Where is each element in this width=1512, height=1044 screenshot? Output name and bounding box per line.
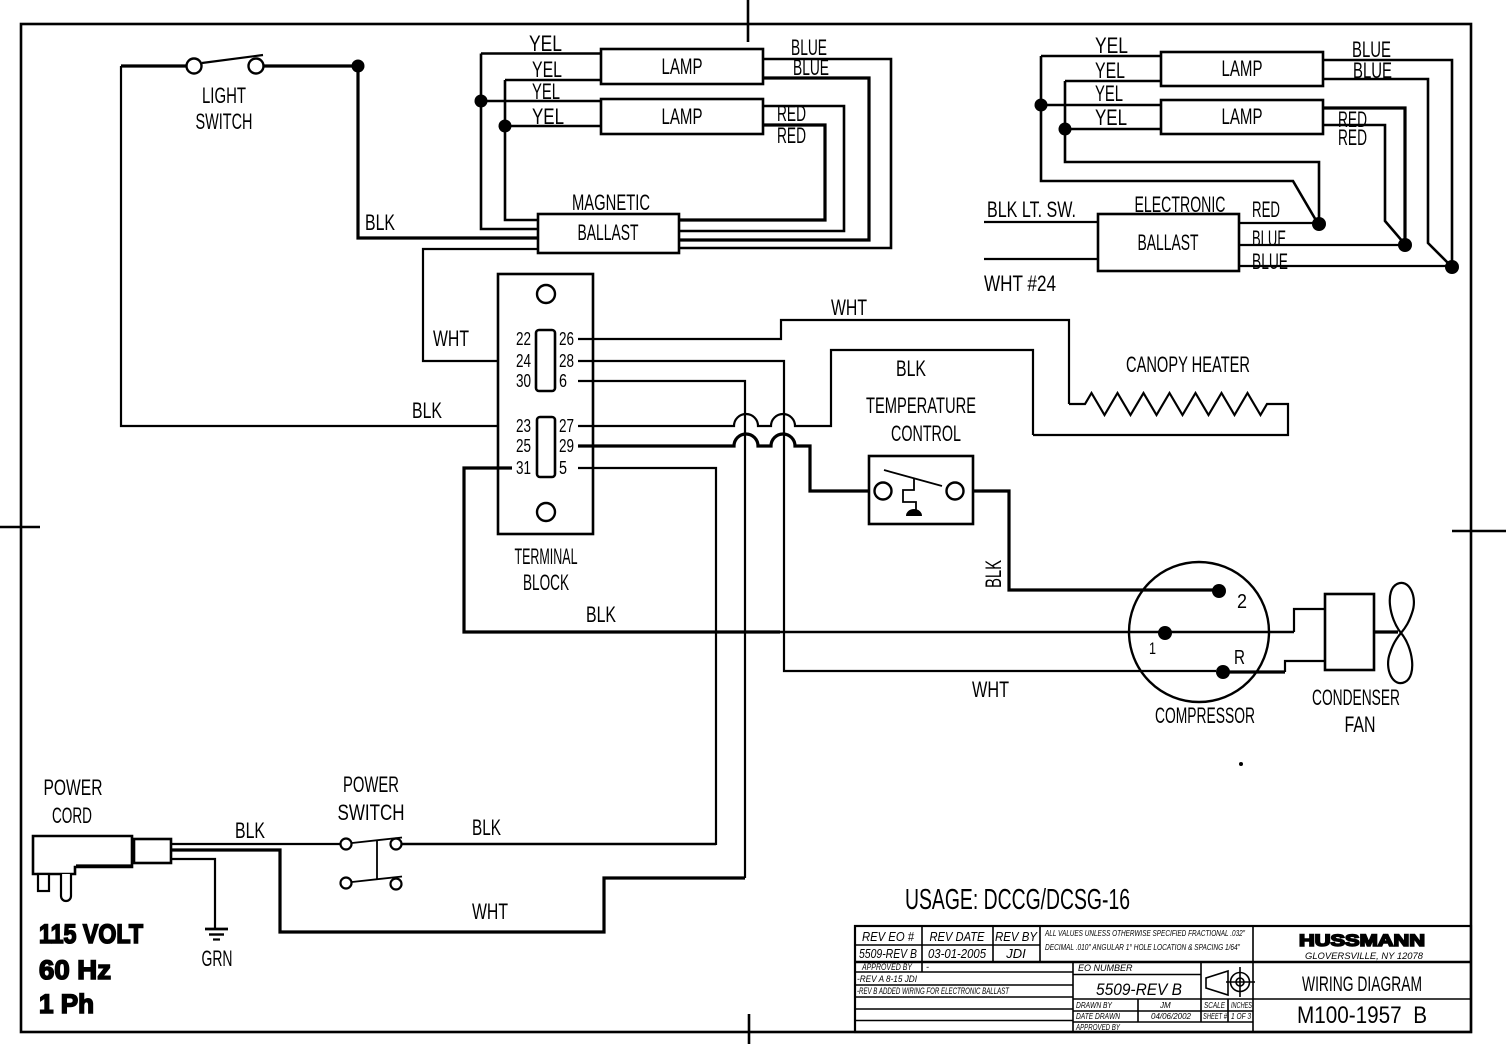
svg-text:6: 6 [559,371,567,391]
svg-text:WHT: WHT [472,899,508,924]
node: junction dot at light switch output [352,60,365,73]
node: junction dot RED / yellow buses [1312,217,1326,231]
wire YEL lamp L1 top [481,31,601,56]
wire RED lamp L4 bottom drop with diagonal [1323,125,1403,242]
node: junction dot e-outer bus [1035,99,1048,112]
lamp L3 [1161,52,1323,86]
tolerance note [1044,929,1246,952]
svg-text:1: 1 [1149,639,1156,658]
svg-text:-REV A 8-15 JDI: -REV A 8-15 JDI [857,974,917,984]
wire BLUE bottom from e-ballast [1239,249,1450,274]
wire YEL lamp L3 top [1041,33,1161,58]
svg-text:24: 24 [516,351,531,371]
power cord plug P1 [33,775,171,901]
temperature control switch S2 [866,393,976,524]
svg-text:SHEET #: SHEET # [1203,1012,1227,1021]
wire YEL lamp L4 bottom [1065,105,1161,130]
svg-text:LAMP: LAMP [1222,56,1263,81]
EO number cell [1078,963,1182,999]
top center tick [747,0,750,42]
svg-text:BLK: BLK [896,356,926,381]
svg-text:TEMPERATURE: TEMPERATURE [866,393,976,418]
svg-text:LAMP: LAMP [662,54,703,79]
bottom center tick [748,1014,751,1044]
svg-text:04/06/2002: 04/06/2002 [1151,1012,1192,1021]
svg-text:M100-1957 B: M100-1957 B [1297,1002,1427,1029]
magnetic ballast B1 [538,190,679,253]
wire BLK temperature control to compressor 2 [973,491,1214,590]
ground symbol [202,929,233,971]
wire BLUE lamp L3 bottom drop with diagonal [1323,58,1450,265]
svg-text:APPROVED BY: APPROVED BY [861,962,913,972]
title block grid [855,926,1471,1032]
svg-text:DRAWN BY: DRAWN BY [1076,1001,1113,1010]
svg-text:BLUE: BLUE [793,55,829,80]
wire BLK LT. SW. input to e-ballast [984,197,1098,222]
wire WHT #24 input to e-ballast [984,259,1098,296]
wire terminal 29 to temperature control [578,434,869,491]
svg-text:COMPRESSOR: COMPRESSOR [1155,703,1255,728]
label 115 VOLT 60 Hz 1 Ph [39,919,143,1019]
wire yellow bus inner (magnetic group) [505,80,538,220]
svg-text:1 Ph: 1 Ph [39,989,94,1019]
svg-text:YEL: YEL [532,104,564,129]
svg-text:JM: JM [1159,1001,1171,1010]
svg-text:YEL: YEL [532,79,560,104]
svg-text:LAMP: LAMP [662,104,703,129]
svg-text:-: - [926,962,929,972]
terminal block TB1 [498,274,593,595]
svg-text:WHT: WHT [433,326,469,351]
svg-text:GLOVERSVILLE, NY 12078: GLOVERSVILLE, NY 12078 [1305,951,1423,961]
drawn-by / date / scale rows [1075,1001,1252,1032]
svg-text:ALL VALUES UNLESS OTHERWISE SP: ALL VALUES UNLESS OTHERWISE SPECIFIED FR… [1044,929,1246,938]
svg-text:MAGNETIC: MAGNETIC [572,190,650,215]
svg-text:WHT: WHT [972,677,1009,702]
wire terminal 31 BLK to compressor 1 [464,468,1294,632]
wire yellow bus outer (magnetic group) [481,54,538,230]
wire terminal 27 BLK to canopy heater return [578,350,1033,435]
svg-text:YEL: YEL [529,31,562,56]
svg-text:RED: RED [1252,197,1280,222]
wire BLUE mid from e-ballast [1239,226,1403,251]
svg-text:BLUE: BLUE [1353,58,1392,83]
svg-text:YEL: YEL [1095,81,1123,106]
wire YEL lamp L4 top [1041,81,1161,106]
wire terminal 26 WHT to canopy heater feed [578,295,1069,404]
svg-text:EO NUMBER: EO NUMBER [1078,963,1133,973]
svg-text:BLK LT. SW.: BLK LT. SW. [987,197,1076,222]
svg-text:FAN: FAN [1345,712,1376,737]
svg-text:INCHES: INCHES [1231,1001,1252,1010]
svg-text:JDI: JDI [1005,946,1026,961]
svg-text:R: R [1234,647,1245,669]
svg-text:5509-REV B: 5509-REV B [859,946,917,961]
wire RED from e-ballast [1239,197,1317,223]
svg-text:BLUE: BLUE [1252,226,1286,251]
svg-text:26: 26 [559,329,574,349]
node: junction dot outer bus / YEL3 [475,95,488,108]
lamp L2 [601,99,763,134]
svg-text:USAGE: DCCG/DCSG-16: USAGE: DCCG/DCSG-16 [905,884,1130,916]
svg-text:5509-REV B: 5509-REV B [1096,980,1182,999]
node: compressor terminal 2 [1212,584,1247,613]
revision history rows [857,962,1010,996]
wire YEL lamp L3 bottom [1065,58,1161,83]
stray scan dot [1239,762,1243,766]
svg-text:31: 31 [516,458,531,478]
svg-text:YEL: YEL [1095,105,1127,130]
wire yellow bus outer (electronic group) [1041,56,1317,222]
svg-text:30: 30 [516,371,531,391]
compressor M1 [1129,562,1269,728]
svg-text:1 OF 3: 1 OF 3 [1231,1012,1251,1021]
svg-text:5: 5 [559,458,567,478]
svg-text:CONTROL: CONTROL [891,421,961,446]
svg-text:BLOCK: BLOCK [523,570,569,595]
title block revision header [859,929,1038,961]
svg-text:BALLAST: BALLAST [578,220,639,245]
svg-text:DECIMAL .010″ ANGULAR 1° HOLE: DECIMAL .010″ ANGULAR 1° HOLE LOCATION &… [1045,943,1241,952]
svg-text:SWITCH: SWITCH [338,800,405,825]
svg-text:LAMP: LAMP [1222,104,1263,129]
svg-text:BALLAST: BALLAST [1138,230,1199,255]
svg-text:23: 23 [516,416,531,436]
resistor: canopy heater [1033,352,1288,435]
svg-text:DATE DRAWN: DATE DRAWN [1076,1012,1120,1021]
svg-text:RED: RED [777,123,806,148]
node: junction dot e-inner bus [1059,123,1072,136]
svg-text:RED: RED [1338,125,1367,150]
svg-text:60 Hz: 60 Hz [39,955,111,985]
svg-text:BLK: BLK [235,818,265,843]
svg-text:22: 22 [516,329,531,349]
wire RED lamp L4 top drop [1323,107,1405,242]
svg-text:-REV B ADDED WIRING FOR ELECTR: -REV B ADDED WIRING FOR ELECTRONIC BALLA… [857,986,1010,996]
svg-text:POWER: POWER [44,775,103,800]
lamp L4 [1161,100,1323,134]
svg-text:CANOPY HEATER: CANOPY HEATER [1126,352,1250,377]
condenser fan motor box [1325,594,1398,670]
node: compressor terminal 1 [1149,626,1172,658]
svg-text:CONDENSER: CONDENSER [1312,685,1400,710]
svg-text:BLK: BLK [365,210,395,235]
wire GRN to ground [171,859,215,928]
svg-text:REV DATE: REV DATE [930,929,985,944]
node: junction dot inner bus / YEL4 [499,120,512,133]
wire BLUE lamp L1 top to ballast [679,35,891,248]
right center tick [1452,530,1506,533]
wire YEL lamp L1 bottom [505,57,601,82]
svg-text:WHT: WHT [831,295,867,320]
wire BLK light switch left leg to terminal 23 [121,66,514,426]
svg-text:APPROVED BY: APPROVED BY [1075,1023,1120,1032]
svg-text:WIRING DIAGRAM: WIRING DIAGRAM [1302,973,1422,996]
third angle projection symbol [1206,967,1255,997]
wire compressor R to condenser fan [1223,670,1285,673]
node: junction dot BLUE bottom [1445,260,1459,274]
wire WHT power cord to terminal 6 [171,850,745,932]
svg-text:BLK: BLK [981,560,1006,588]
svg-text:28: 28 [559,351,574,371]
lamp L1 [601,49,763,84]
svg-text:SWITCH: SWITCH [196,109,253,134]
condenser fan blades [1312,583,1414,737]
svg-text:2: 2 [1237,591,1247,613]
svg-text:YEL: YEL [1095,58,1125,83]
svg-text:WHT #24: WHT #24 [984,271,1056,296]
electronic ballast B2 [1098,192,1239,271]
svg-text:115 VOLT: 115 VOLT [39,919,143,949]
svg-text:POWER: POWER [343,772,399,797]
svg-text:REV BY: REV BY [995,929,1038,944]
svg-text:BLK: BLK [472,815,501,840]
svg-text:YEL: YEL [1095,33,1128,58]
svg-text:REV EO #: REV EO # [862,929,915,944]
svg-text:25: 25 [516,436,531,456]
svg-text:TERMINAL: TERMINAL [515,544,578,569]
svg-text:27: 27 [559,416,574,436]
svg-text:LIGHT: LIGHT [202,83,246,108]
svg-text:HUSSMANN: HUSSMANN [1299,931,1425,950]
wire yellow bus inner (electronic group) [1065,81,1319,222]
wire BLK power cord to power switch [171,818,341,844]
wire RED lamp L2 bottom to ballast [679,123,825,220]
wire BLUE lamp L1 bottom to ballast [679,55,869,240]
node: compressor terminal R [1216,647,1245,679]
svg-text:BLK: BLK [412,398,442,423]
wire compressor 1 to condenser fan [1294,609,1325,632]
svg-text:GRN: GRN [202,946,233,971]
svg-text:03-01-2005: 03-01-2005 [928,946,987,961]
wire YEL lamp L2 bottom [505,104,601,129]
wire terminal 28 to compressor R [578,361,1216,671]
wire terminal 5 down to power switch BLK [578,468,716,845]
wire YEL lamp L2 top [481,79,601,104]
wire BLUE lamp L3 top drop [1323,37,1452,264]
svg-text:29: 29 [559,436,574,456]
svg-text:CORD: CORD [52,803,92,828]
wire terminal 6 down to power white [578,381,745,878]
svg-text:SCALE: SCALE [1204,1001,1226,1010]
wire BLK power switch to terminal 5 [402,815,716,844]
wire BLK light switch to magnetic ballast [358,66,538,238]
node: junction dot BLUE mid [1398,238,1412,252]
power switch SW2 [338,772,405,890]
left center tick [0,526,40,529]
wire WHT ballast to terminal 24 [423,249,538,361]
svg-text:BLUE: BLUE [1252,249,1288,274]
wire RED lamp L2 top to ballast [679,101,844,231]
light switch SW1 [121,55,352,134]
svg-text:BLK: BLK [586,602,616,627]
Hussmann logo [1299,931,1425,961]
